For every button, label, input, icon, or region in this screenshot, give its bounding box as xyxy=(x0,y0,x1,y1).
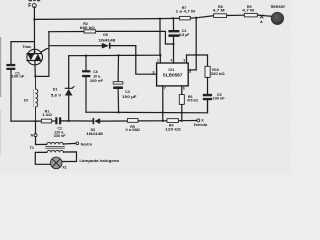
resistor R4 xyxy=(165,119,181,132)
diode D6 xyxy=(86,118,103,136)
svg-text:D5: D5 xyxy=(103,33,108,37)
paper background xyxy=(0,0,290,174)
terminal F xyxy=(28,3,36,9)
wire R2 rail xyxy=(49,31,84,33)
svg-text:C6: C6 xyxy=(93,70,98,74)
wire branch to C1 xyxy=(11,42,34,64)
wire rail B to N and transformer xyxy=(35,121,37,134)
svg-text:1: 1 xyxy=(157,59,159,63)
IC CI1 SLB0587 xyxy=(157,63,189,86)
resistor R1 xyxy=(41,110,52,123)
svg-text:5: 5 xyxy=(189,70,191,74)
wire top rail xyxy=(34,18,179,19)
pin 1 xyxy=(159,55,161,63)
wire top rail segment R9 to sensor xyxy=(257,15,272,16)
wire D5 line xyxy=(49,45,102,47)
svg-text:1 kΩ: 1 kΩ xyxy=(42,113,52,117)
svg-text:6,8 µF: 6,8 µF xyxy=(179,33,190,37)
svg-text:4: 4 xyxy=(171,59,173,63)
transformer T1 primary xyxy=(30,142,76,149)
wire vertical gate/R2 column xyxy=(48,32,50,77)
capacitor C2 xyxy=(54,117,67,138)
node A test point x xyxy=(260,15,263,24)
pin 5 xyxy=(188,69,196,71)
svg-text:Dr: Dr xyxy=(24,99,29,103)
svg-text:470 kΩ: 470 kΩ xyxy=(187,98,198,102)
lamp X1 halogen xyxy=(50,157,119,170)
terminal N xyxy=(34,134,37,137)
wire F vertical to triac xyxy=(33,7,35,54)
wire rail55 (Vs rail) xyxy=(69,54,161,57)
svg-text:8: 8 xyxy=(153,70,155,74)
node F-rail junction xyxy=(33,18,35,20)
sensor pad xyxy=(271,4,286,25)
cropped text fragments top edge xyxy=(29,0,41,1)
svg-text:100 nF: 100 nF xyxy=(213,97,226,101)
wire bottom rail (rail B) xyxy=(11,120,41,122)
svg-text:C3: C3 xyxy=(125,90,130,94)
wire top rail segment R8-R9 xyxy=(227,14,245,16)
svg-text:1N4148: 1N4148 xyxy=(98,38,115,42)
resistor R5 xyxy=(126,119,141,133)
wire rail ground/common (rail A) xyxy=(86,100,208,113)
svg-text:330 kΩ: 330 kΩ xyxy=(211,72,225,76)
pin 3 xyxy=(186,55,188,63)
wire vertical x160 rail to IC pin1 xyxy=(159,19,161,56)
resistor R8 xyxy=(213,5,227,17)
wire gate xyxy=(41,49,49,52)
resistor R7 xyxy=(176,6,195,20)
svg-text:6: 6 xyxy=(183,86,185,90)
wire MT1 to column xyxy=(35,75,49,77)
svg-text:330 nF: 330 nF xyxy=(54,134,67,138)
zener D1 xyxy=(51,56,74,121)
svg-text:1N4148: 1N4148 xyxy=(86,132,103,136)
resistor R9 xyxy=(242,5,257,17)
terminal Neutro xyxy=(76,142,93,146)
svg-text:SLB0587: SLB0587 xyxy=(163,72,184,77)
capacitor C4 xyxy=(168,18,190,44)
pin 4 xyxy=(173,44,175,63)
resistor R10 xyxy=(205,55,225,77)
capacitor C3 electrolytic xyxy=(113,55,137,112)
triac Tri1 xyxy=(22,44,42,65)
svg-text:Triac: Triac xyxy=(22,44,32,49)
svg-text:100 nF: 100 nF xyxy=(11,75,25,79)
wire pin7 to bottom rail xyxy=(162,112,164,120)
node top rail junctions xyxy=(159,17,161,19)
choke Dr xyxy=(24,76,38,121)
svg-text:3: 3 xyxy=(183,59,185,63)
terminal X extension xyxy=(194,119,208,127)
transformer T1 secondary xyxy=(35,150,76,164)
svg-text:F: F xyxy=(28,3,31,9)
svg-text:Sensor: Sensor xyxy=(271,4,286,9)
wire top rail segment R7-R8 xyxy=(190,16,213,18)
resistor R6 xyxy=(179,95,198,121)
svg-text:Lâmpada halógena: Lâmpada halógena xyxy=(79,158,119,163)
svg-text:100 nF: 100 nF xyxy=(90,79,104,83)
svg-text:1 a 4,7 M: 1 a 4,7 M xyxy=(176,10,195,14)
pin 7 xyxy=(162,86,164,113)
capacitor C6 xyxy=(82,56,104,113)
svg-text:4,7 M: 4,7 M xyxy=(242,9,254,13)
svg-text:Extensão: Extensão xyxy=(194,123,208,127)
capacitor C5 xyxy=(203,77,226,112)
svg-text:Neutro: Neutro xyxy=(81,142,93,146)
capacitor C1 xyxy=(6,64,25,121)
svg-text:7: 7 xyxy=(164,86,166,90)
svg-text:X1: X1 xyxy=(62,166,66,170)
svg-text:D1: D1 xyxy=(53,87,58,91)
svg-text:100 µF: 100 µF xyxy=(122,95,138,99)
svg-text:0 a 68Ω: 0 a 68Ω xyxy=(126,128,141,132)
svg-text:680 kΩ: 680 kΩ xyxy=(80,26,95,30)
resistor R2 xyxy=(80,22,96,33)
diode D5 xyxy=(98,33,115,48)
svg-text:T1: T1 xyxy=(30,146,34,150)
svg-text:120 kΩ: 120 kΩ xyxy=(165,128,181,132)
svg-text:A: A xyxy=(260,20,263,24)
svg-text:5,6 V: 5,6 V xyxy=(51,93,62,97)
transformer core xyxy=(46,145,65,147)
pin 8 xyxy=(136,55,157,74)
svg-text:N: N xyxy=(31,134,34,138)
wire pin3/pin5/R10 node xyxy=(195,18,197,70)
pin 6 xyxy=(181,86,183,95)
scan edge streak xyxy=(0,37,1,97)
svg-text:4,7 M: 4,7 M xyxy=(213,9,225,13)
